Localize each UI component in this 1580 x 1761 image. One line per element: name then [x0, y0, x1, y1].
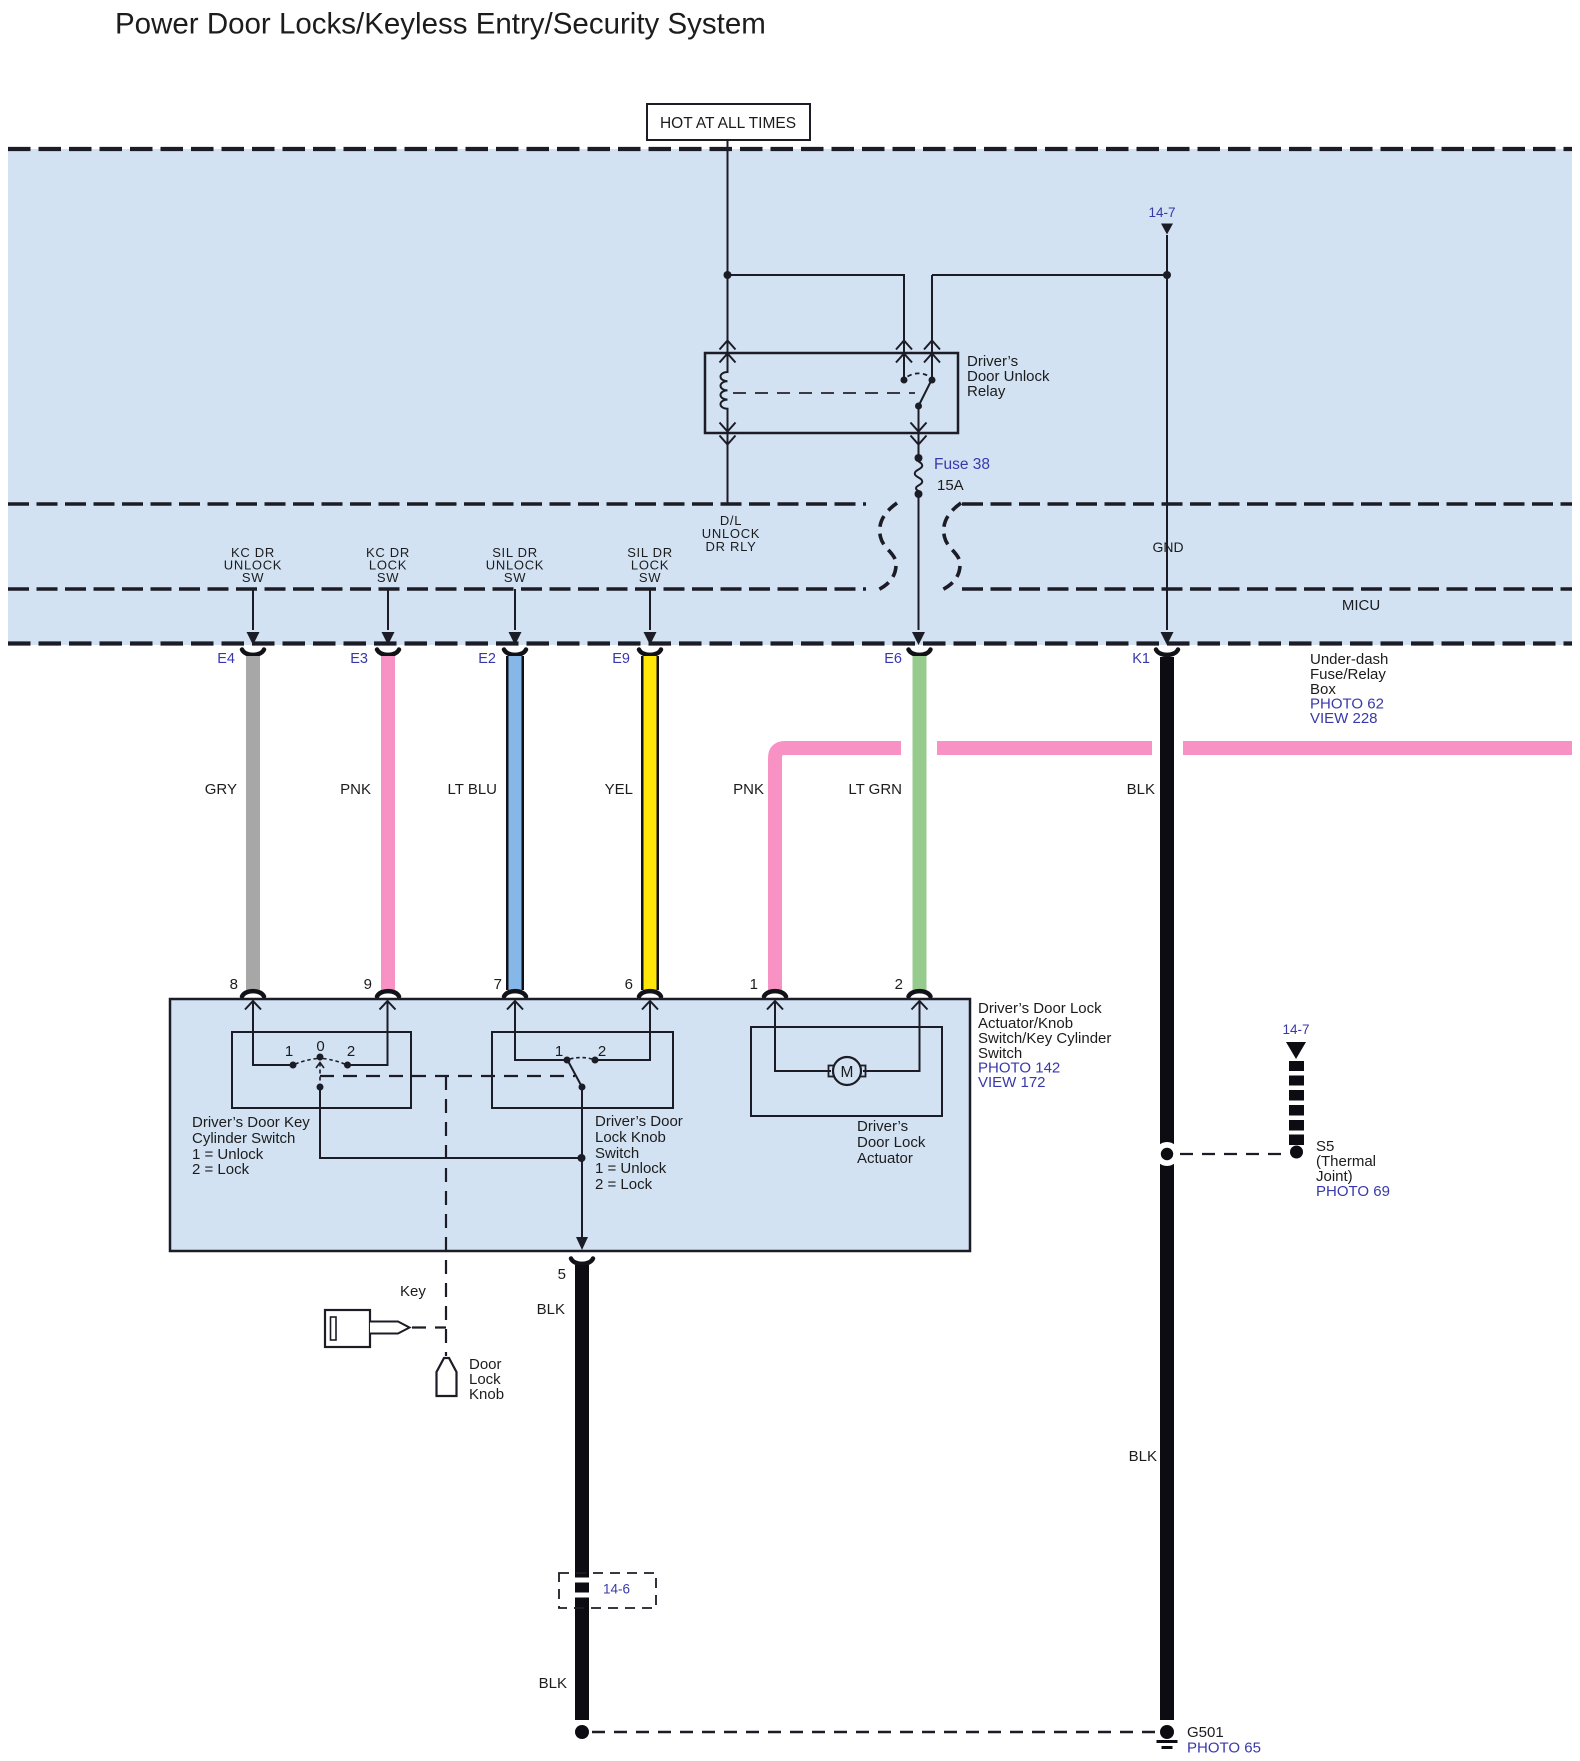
band break mark right	[940, 503, 961, 591]
pin 6 cap	[639, 991, 661, 996]
svg-text:SW: SW	[639, 570, 661, 585]
label Driver's Door Lock Actuator/Knob Switch/Key Cylinder Switch	[978, 1000, 1111, 1091]
pin 2 wire into actuator	[863, 1001, 920, 1071]
svg-text:1: 1	[555, 1043, 563, 1060]
label Driver's Door Lock Actuator	[857, 1118, 926, 1167]
svg-text:BLK: BLK	[537, 1301, 565, 1318]
pin 1 cap	[764, 991, 786, 996]
svg-text:14-7: 14-7	[1148, 205, 1175, 220]
motor M1	[829, 1057, 866, 1085]
key symbol	[325, 1310, 410, 1347]
wire E4 GRY	[246, 656, 260, 990]
pin 8 wire into key cylinder switch	[253, 1001, 293, 1065]
terminal 14-7 top	[1148, 205, 1175, 235]
svg-text:8: 8	[230, 976, 238, 993]
actuator box	[751, 1027, 942, 1116]
svg-text:PNK: PNK	[340, 781, 371, 798]
MICU band bottom dashed border C	[8, 641, 1572, 645]
pin 6 wire into lock knob switch	[595, 1001, 650, 1060]
pin 6 chevron	[642, 1001, 658, 1010]
svg-text:G501: G501	[1187, 1724, 1224, 1741]
wire SIL DR UNLOCK SW to E2	[514, 589, 516, 630]
wire BLK pin 5 down	[575, 1265, 589, 1720]
ground symbol G501	[1157, 1742, 1178, 1748]
svg-text:Cylinder Switch: Cylinder Switch	[192, 1130, 295, 1147]
connector cap E3	[377, 650, 399, 655]
wire GND vertical (to K1)	[1166, 235, 1168, 630]
svg-text:SW: SW	[242, 570, 264, 585]
wire from HOT AT ALL TIMES down to relay coil	[727, 140, 729, 353]
svg-text:14-7: 14-7	[1282, 1022, 1309, 1037]
svg-text:SW: SW	[504, 570, 526, 585]
relay switch blade	[919, 381, 932, 406]
wire E2 LT BLU	[506, 656, 524, 990]
node junction of switch outputs	[578, 1154, 586, 1162]
wire K1 BLK vertical	[1160, 657, 1174, 1720]
door lock knob symbol	[437, 1358, 457, 1396]
label KC DR UNLOCK SW	[224, 545, 282, 585]
pin 8 cap	[242, 991, 264, 996]
mechanical link dashed vertical to key/knob	[445, 1076, 447, 1356]
label SIL DR UNLOCK SW	[486, 545, 544, 585]
relay coil pin top chevrons	[720, 341, 736, 363]
svg-text:6: 6	[625, 976, 633, 993]
svg-text:VIEW 228: VIEW 228	[1310, 710, 1378, 727]
arrowhead at pin 5	[576, 1237, 588, 1250]
knob switch blade	[568, 1061, 582, 1087]
pin 7 chevron	[507, 1001, 523, 1010]
HOT AT ALL TIMES box	[647, 104, 810, 140]
node junction on hot wire	[724, 271, 732, 279]
wire KC DR LOCK SW to E3	[387, 589, 389, 630]
svg-text:Knob: Knob	[469, 1386, 504, 1403]
svg-text:HOT AT ALL TIMES: HOT AT ALL TIMES	[660, 115, 796, 132]
svg-text:1: 1	[285, 1043, 293, 1060]
terminal 14-7 right column	[1282, 1022, 1309, 1159]
svg-text:LT GRN: LT GRN	[848, 781, 902, 798]
wire E6 LT GRN	[913, 656, 927, 990]
MICU band inner dashed line B	[8, 587, 866, 590]
svg-text:2: 2	[347, 1043, 355, 1060]
label Under-dash Fuse/Relay Box	[1310, 651, 1388, 727]
svg-text:Driver’s Door Key: Driver’s Door Key	[192, 1114, 310, 1131]
svg-text:E2: E2	[478, 651, 496, 667]
relay coil pin bottom chevrons	[720, 423, 736, 445]
pin 2 cap	[909, 991, 931, 996]
wire E9 YEL	[641, 656, 659, 990]
svg-text:5: 5	[558, 1266, 566, 1283]
label SIL DR LOCK SW	[627, 545, 673, 585]
pin 8 chevron	[245, 1001, 261, 1010]
MICU band inner dashed line A	[8, 502, 866, 505]
wire from relay to 14-7 ground line	[932, 274, 1167, 276]
dashed ground link wire	[592, 1731, 1155, 1734]
svg-text:SW: SW	[377, 570, 399, 585]
dashed link key to mechanism	[412, 1326, 446, 1328]
node junction at GND line	[1163, 271, 1171, 279]
svg-text:Lock Knob: Lock Knob	[595, 1129, 666, 1146]
pin 7 wire into lock knob switch	[515, 1001, 567, 1060]
wire SIL DR LOCK SW to E9	[649, 589, 651, 630]
connector cap E6	[909, 650, 931, 655]
svg-text:GRY: GRY	[205, 781, 237, 798]
knob switch dashed throw	[570, 1058, 592, 1060]
key cylinder contact dots	[290, 1062, 297, 1069]
pin 9 chevron	[380, 1001, 396, 1010]
band break mark left	[876, 503, 897, 591]
relay U: Driver's Door Unlock Relay box	[705, 353, 958, 433]
svg-text:GND: GND	[1152, 539, 1183, 555]
svg-text:DR RLY: DR RLY	[706, 539, 757, 554]
svg-text:YEL: YEL	[605, 781, 633, 798]
svg-text:7: 7	[494, 976, 502, 993]
connector cap E9	[639, 650, 661, 655]
label Driver's Door Key Cylinder Switch	[192, 1114, 310, 1178]
svg-text:Actuator: Actuator	[857, 1150, 913, 1167]
svg-text:K1: K1	[1132, 651, 1150, 667]
switch S2: lock knob switch box	[492, 1032, 673, 1108]
wire from relay switch common pin up	[931, 275, 933, 353]
label Driver's Door Lock Knob Switch	[595, 1113, 683, 1193]
dashed link to S5	[1180, 1153, 1288, 1155]
switch S1: key cylinder switch box	[232, 1032, 411, 1108]
svg-text:E9: E9	[612, 651, 630, 667]
svg-text:E3: E3	[350, 651, 368, 667]
pin 9 cap	[377, 991, 399, 996]
svg-text:BLK: BLK	[1127, 781, 1155, 798]
svg-text:Fuse 38: Fuse 38	[934, 456, 990, 473]
pin 5 cap	[571, 1259, 593, 1264]
key cylinder output wire down and right	[320, 1087, 582, 1158]
knob switch output wire to pin 5	[581, 1087, 583, 1238]
label D/L UNLOCK DR RLY	[702, 513, 760, 554]
svg-text:BLK: BLK	[1129, 1448, 1157, 1465]
relay switch output wire	[918, 406, 920, 458]
relay switch dashed throw arc	[908, 373, 929, 376]
svg-text:PHOTO 65: PHOTO 65	[1187, 1740, 1261, 1757]
svg-text:E4: E4	[217, 651, 235, 667]
svg-text:2: 2	[598, 1043, 606, 1060]
ground node G501 left dot	[575, 1725, 589, 1739]
pin 7 cap	[504, 991, 526, 996]
svg-text:0: 0	[316, 1038, 324, 1055]
relay switch contact posts	[903, 353, 905, 380]
svg-text:15A: 15A	[937, 477, 964, 494]
svg-text:1 = Unlock: 1 = Unlock	[595, 1160, 667, 1177]
connector cap E4	[242, 650, 264, 655]
relay coil wire to D/L UNLOCK DR RLY	[727, 433, 729, 503]
svg-text:2: 2	[895, 976, 903, 993]
pin 1 chevron	[767, 1001, 783, 1010]
svg-text:VIEW 172: VIEW 172	[978, 1074, 1046, 1091]
ground node G501 right dot	[1160, 1725, 1174, 1739]
relay switch pin chevrons	[896, 341, 912, 363]
svg-text:Power Door Locks/Keyless Entry: Power Door Locks/Keyless Entry/Security …	[115, 8, 766, 41]
relay coil L1	[721, 353, 728, 433]
connector cap E2	[504, 650, 526, 655]
mechanical link dashed horizontal	[320, 1075, 575, 1077]
MICU band top dashed border	[8, 147, 1572, 151]
wire PNK horizontal from pin 1	[775, 741, 1572, 990]
svg-text:PHOTO 69: PHOTO 69	[1316, 1183, 1390, 1200]
svg-text:14-6: 14-6	[603, 1582, 630, 1597]
pin 2 chevron	[912, 1001, 928, 1010]
svg-text:MICU: MICU	[1342, 597, 1380, 614]
label S5 (Thermal Joint)	[1316, 1138, 1390, 1200]
relay switch pin bottom chevrons	[911, 423, 927, 445]
pin 1 wire into actuator	[775, 1001, 831, 1071]
junction S5 white ring on BLK wire	[1155, 1142, 1179, 1166]
label Door Lock Knob	[469, 1356, 504, 1403]
knob switch contact dots	[564, 1057, 571, 1064]
svg-text:Door Lock: Door Lock	[857, 1134, 926, 1151]
svg-text:M: M	[841, 1064, 854, 1081]
connector 14-6 bracket	[559, 1573, 656, 1608]
svg-text:1: 1	[750, 976, 758, 993]
svg-text:2 = Lock: 2 = Lock	[595, 1176, 653, 1193]
key cylinder dashed throws	[296, 1059, 345, 1065]
svg-text:BLK: BLK	[539, 1675, 567, 1692]
connector cap K1	[1156, 650, 1178, 655]
svg-text:2 = Lock: 2 = Lock	[192, 1161, 250, 1178]
wire branch from hot node to relay switch pin	[728, 275, 905, 353]
key cylinder actuating arm	[316, 1063, 324, 1091]
arrowhead fuse wire at E6	[912, 632, 925, 645]
wire E3 PNK	[381, 656, 395, 990]
svg-text:Driver’s: Driver’s	[857, 1118, 908, 1135]
svg-text:LT BLU: LT BLU	[448, 781, 497, 798]
svg-text:PNK: PNK	[733, 781, 764, 798]
svg-text:Driver’s Door: Driver’s Door	[595, 1113, 683, 1130]
relay internal dashed link	[733, 392, 915, 394]
svg-text:Relay: Relay	[967, 383, 1006, 400]
pin 9 wire into key cylinder switch	[348, 1001, 388, 1065]
wire KC DR UNLOCK SW to E4	[252, 589, 254, 630]
driver's door lock actuator assembly box	[170, 999, 970, 1251]
wire fuse to E6	[918, 494, 920, 630]
svg-text:E6: E6	[884, 651, 902, 667]
under-dash fuse/relay box blue band	[8, 149, 1572, 645]
svg-text:Key: Key	[400, 1283, 426, 1300]
fuse F38	[915, 454, 923, 498]
svg-text:9: 9	[364, 976, 372, 993]
label KC DR LOCK SW	[366, 545, 410, 585]
arrowhead GND at K1	[1161, 632, 1174, 645]
